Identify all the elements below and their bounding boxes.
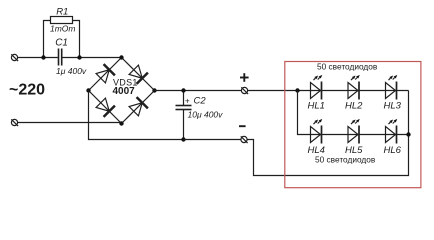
diode bridge bottom-right — [129, 97, 148, 116]
resistor R1 — [51, 17, 73, 24]
LED HL6 — [386, 119, 398, 144]
svg-text:HL1: HL1 — [308, 100, 325, 111]
wire plus to LED box — [248, 90, 409, 92]
node bridge top — [119, 55, 123, 59]
terminal input top — [11, 54, 18, 61]
node bridge left — [86, 88, 90, 92]
diode bridge bottom-left — [96, 98, 115, 117]
svg-text:50 светодиодов: 50 светодиодов — [317, 62, 378, 72]
wire bottom AC rail — [18, 122, 122, 124]
wire minus from bridge left down — [89, 91, 184, 140]
diode bridge top-right — [129, 65, 148, 84]
terminal output plus — [241, 87, 248, 94]
label plus sign — [240, 73, 249, 82]
LED HL2 — [348, 75, 360, 100]
capacitor C1 — [59, 49, 62, 66]
svg-text:HL4: HL4 — [308, 145, 325, 156]
node R1C1 left — [41, 55, 45, 59]
wire minus rail to terminal — [184, 139, 241, 141]
LED HL5 — [348, 119, 360, 144]
diode bridge top-left — [96, 64, 115, 83]
svg-text:HL2: HL2 — [345, 100, 363, 111]
node bridge right — [152, 88, 156, 92]
wire R1 right lead — [73, 21, 80, 58]
node bridge bottom — [119, 121, 123, 125]
node C2 bottom — [181, 137, 185, 141]
svg-text:C2: C2 — [194, 96, 207, 107]
node LED row2 right — [406, 132, 410, 136]
node LED row1 branch — [295, 88, 299, 92]
terminal input bottom — [11, 119, 18, 126]
label minus sign — [239, 125, 246, 127]
LED HL1 — [311, 75, 323, 100]
svg-text:1mOm: 1mOm — [50, 24, 76, 34]
wire top rail left — [18, 57, 58, 59]
svg-text:HL3: HL3 — [384, 100, 402, 111]
svg-text:4007: 4007 — [113, 86, 136, 97]
capacitor C2 — [176, 91, 192, 140]
wire R1 left lead — [44, 21, 51, 58]
svg-text:~220: ~220 — [9, 82, 45, 99]
wire top rail right — [62, 57, 121, 59]
svg-text:C1: C1 — [55, 37, 68, 48]
LED box red frame — [285, 62, 421, 188]
svg-text:1μ 400v: 1μ 400v — [56, 66, 87, 76]
svg-text:R1: R1 — [56, 6, 68, 17]
svg-text:+: + — [185, 97, 190, 106]
wire minus return path — [247, 91, 408, 176]
wire plus rail — [155, 90, 242, 92]
bridge rectifier VDS1 diamond wires — [89, 58, 155, 124]
svg-text:50 светодиодов: 50 светодиодов — [315, 155, 376, 165]
wire LED row2 feed — [298, 91, 409, 135]
node R1C1 right — [77, 55, 81, 59]
node C2 top — [181, 88, 185, 92]
svg-text:HL6: HL6 — [384, 145, 402, 156]
svg-text:HL5: HL5 — [345, 145, 363, 156]
LED HL3 — [386, 75, 398, 100]
LED HL4 — [311, 119, 323, 144]
terminal output minus — [241, 136, 248, 143]
svg-text:10μ 400v: 10μ 400v — [188, 110, 224, 120]
